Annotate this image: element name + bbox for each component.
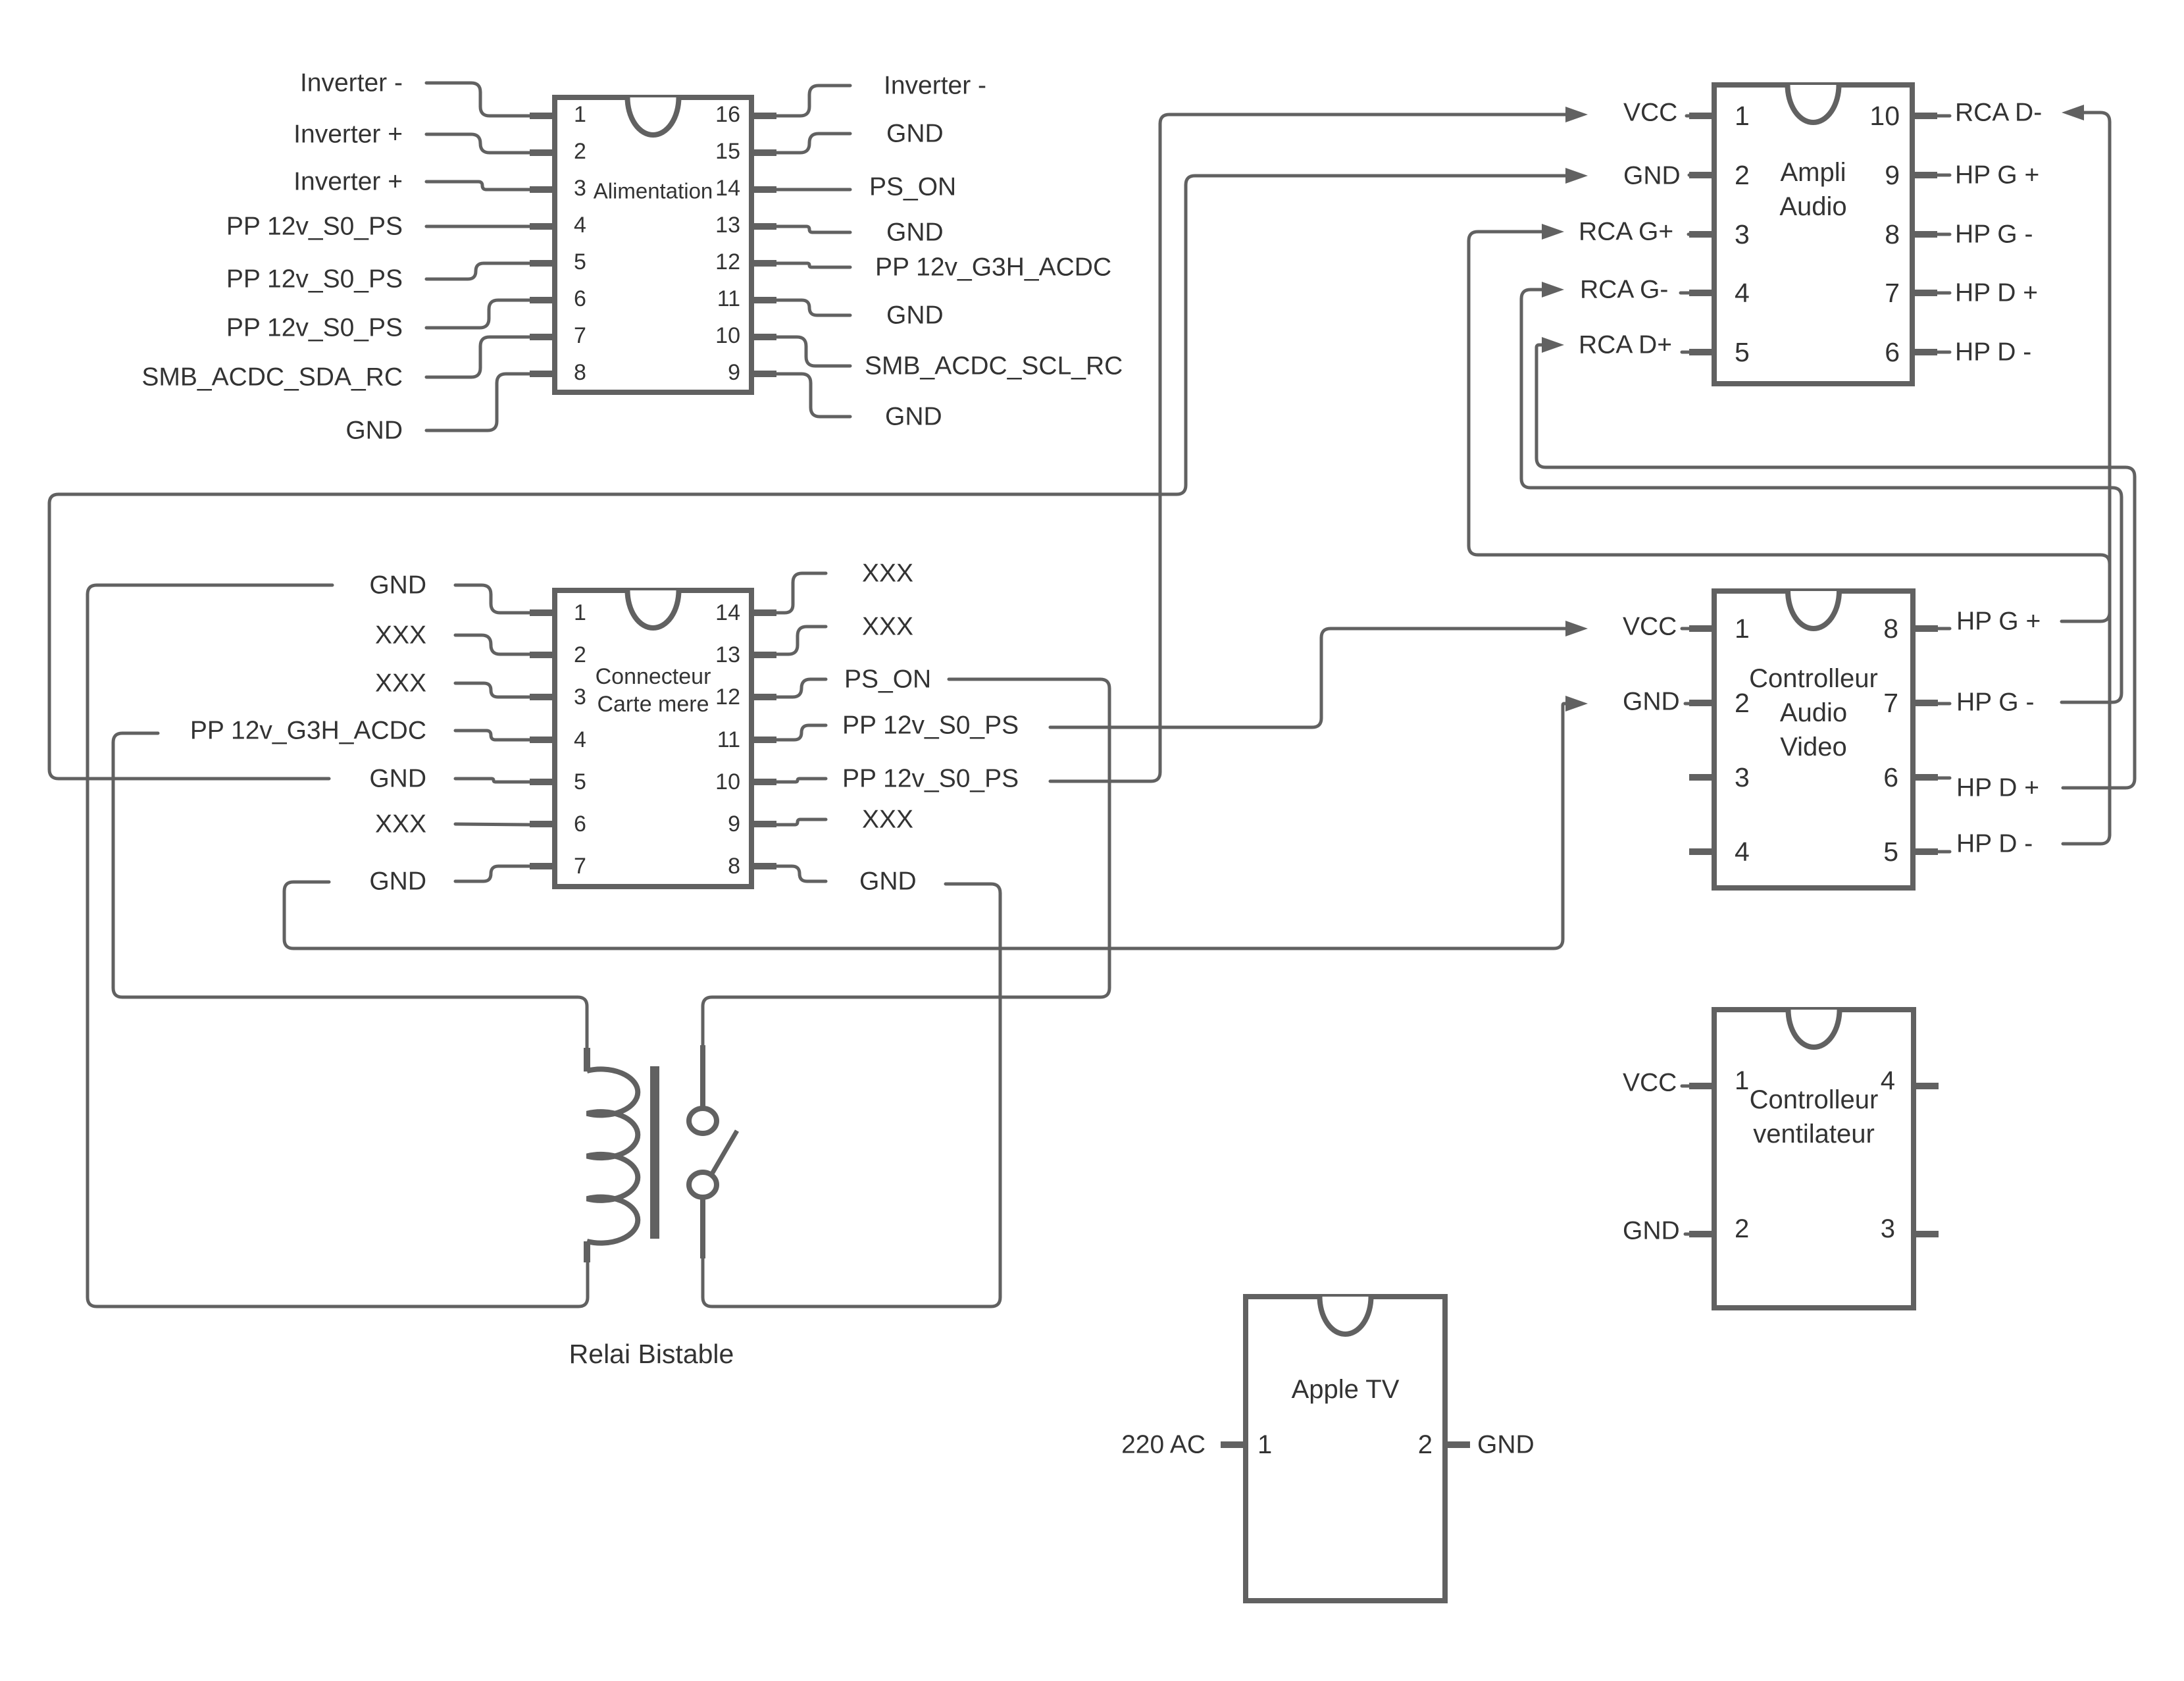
wire pin -> XXX bbox=[776, 819, 826, 825]
svg-text:2: 2 bbox=[1735, 688, 1750, 718]
svg-text:4: 4 bbox=[1735, 837, 1750, 867]
svg-text:4: 4 bbox=[574, 727, 586, 752]
svg-text:6: 6 bbox=[1883, 762, 1898, 792]
svg-text:4: 4 bbox=[574, 213, 586, 238]
IC Controlleur ventilateur U4: pin 2 stub bbox=[1689, 1231, 1714, 1237]
svg-text:HP G +: HP G + bbox=[1955, 161, 2039, 190]
svg-text:Controlleur: Controlleur bbox=[1750, 1085, 1879, 1114]
svg-text:7: 7 bbox=[574, 323, 586, 348]
svg-text:HP G -: HP G - bbox=[1955, 220, 2033, 249]
svg-text:VCC: VCC bbox=[1623, 1069, 1677, 1097]
svg-text:3: 3 bbox=[1735, 219, 1750, 249]
wire pin -> HP D - label bbox=[1937, 351, 1950, 354]
wire Inverter + -> pin bbox=[426, 182, 530, 190]
IC Alimentation U1: pin 10 stub bbox=[751, 334, 776, 340]
svg-text:1: 1 bbox=[1735, 1066, 1749, 1095]
svg-text:10: 10 bbox=[1869, 101, 1900, 131]
svg-text:GND: GND bbox=[369, 765, 426, 793]
wire pin -> GND bbox=[776, 374, 850, 417]
svg-text:7: 7 bbox=[1883, 688, 1898, 718]
wire XXX -> pin bbox=[455, 635, 530, 654]
svg-text:GND: GND bbox=[886, 301, 944, 330]
wire pin -> XXX bbox=[776, 627, 826, 654]
IC Alimentation U1: pin 3 stub bbox=[530, 186, 555, 193]
svg-text:GND: GND bbox=[1623, 688, 1680, 716]
wire net GND: Connecteur pin5 GND -> Ampli GND bbox=[49, 176, 1565, 779]
svg-text:RCA G+: RCA G+ bbox=[1579, 218, 1673, 246]
IC Connecteur Carte mere J1: pin 2 stub bbox=[530, 652, 555, 658]
relay K1 switch contact circle bottom bbox=[689, 1172, 717, 1197]
wire pin -> GND bbox=[776, 226, 850, 232]
IC Ampli Audio U2: pin 10 stub bbox=[1912, 113, 1937, 119]
wire pin -> HP G - label bbox=[1938, 702, 1950, 706]
arrowhead into Ampli VCC bbox=[1565, 107, 1588, 122]
IC Alimentation U1: pin 9 stub bbox=[751, 371, 776, 377]
svg-text:HP D +: HP D + bbox=[1955, 279, 2038, 307]
IC Alimentation U1: pin 7 stub bbox=[530, 334, 555, 340]
IC Controlleur ventilateur U4: pin 3 stub bbox=[1914, 1231, 1939, 1237]
svg-text:Inverter +: Inverter + bbox=[293, 120, 403, 149]
IC Controlleur ventilateur U4: notch bbox=[1789, 1010, 1840, 1047]
svg-text:GND: GND bbox=[1623, 1217, 1680, 1245]
relay K1 coil windings bbox=[587, 1069, 638, 1243]
IC Alimentation U1: pin 1 stub bbox=[530, 113, 555, 119]
IC Apple TV: pin 2 stub bbox=[1445, 1441, 1470, 1448]
svg-text:Alimentation: Alimentation bbox=[594, 179, 713, 203]
svg-text:10: 10 bbox=[715, 769, 740, 794]
svg-text:2: 2 bbox=[574, 642, 586, 667]
IC Alimentation U1: pin 11 stub bbox=[751, 297, 776, 303]
arrowhead into Ctrl AV VCC bbox=[1565, 621, 1588, 636]
svg-text:PP 12v_S0_PS: PP 12v_S0_PS bbox=[226, 213, 403, 241]
wire pin -> PP 12v_S0_PS bbox=[776, 725, 826, 740]
wire PP 12v_S0_PS -> pin bbox=[426, 263, 530, 279]
IC Connecteur Carte mere J1: pin 14 stub bbox=[751, 609, 776, 616]
svg-text:12: 12 bbox=[715, 249, 740, 274]
svg-text:5: 5 bbox=[1735, 337, 1750, 367]
svg-text:XXX: XXX bbox=[862, 806, 913, 834]
svg-text:16: 16 bbox=[715, 102, 740, 127]
wire pin -> GND bbox=[776, 134, 850, 153]
svg-text:HP D -: HP D - bbox=[1956, 830, 2033, 858]
svg-text:2: 2 bbox=[1735, 1214, 1749, 1243]
IC Controlleur ventilateur U4: pin 4 stub bbox=[1914, 1083, 1939, 1089]
svg-text:XXX: XXX bbox=[375, 810, 426, 839]
svg-text:Connecteur: Connecteur bbox=[596, 664, 711, 689]
svg-text:XXX: XXX bbox=[862, 559, 913, 588]
IC Connecteur Carte mere J1: pin 13 stub bbox=[751, 652, 776, 658]
IC Ampli Audio U2: body bbox=[1714, 85, 1912, 384]
IC Controlleur Audio Video U3: body bbox=[1714, 591, 1913, 888]
svg-text:1: 1 bbox=[574, 102, 586, 127]
IC Connecteur Carte mere J1: pin 12 stub bbox=[751, 694, 776, 700]
svg-text:Inverter +: Inverter + bbox=[293, 168, 403, 196]
svg-text:3: 3 bbox=[1881, 1214, 1895, 1243]
svg-text:GND: GND bbox=[369, 867, 426, 896]
svg-text:8: 8 bbox=[574, 360, 586, 385]
wire Inverter + -> pin bbox=[426, 134, 530, 153]
wire RCA G- label -> pin bbox=[1681, 292, 1689, 295]
svg-text:9: 9 bbox=[728, 812, 740, 837]
svg-text:HP D -: HP D - bbox=[1955, 338, 2031, 367]
svg-text:5: 5 bbox=[574, 249, 586, 274]
svg-text:PP 12v_S0_PS: PP 12v_S0_PS bbox=[842, 711, 1019, 740]
wire net HP G+: Ctrl AV HP G+ -> Ampli RCA G+ bbox=[1469, 232, 2110, 621]
IC Alimentation U1: pin 14 stub bbox=[751, 186, 776, 193]
IC Connecteur Carte mere J1: pin 4 stub bbox=[530, 737, 555, 743]
wire VCC label -> pin bbox=[1687, 115, 1689, 118]
wire PP 12v_S0_PS -> pin bbox=[426, 300, 530, 328]
svg-text:GND: GND bbox=[1477, 1431, 1535, 1459]
wire RCA D+ label -> pin bbox=[1682, 351, 1689, 354]
IC Apple TV: pin 1 stub bbox=[1221, 1441, 1246, 1448]
IC Alimentation U1: pin 4 stub bbox=[530, 223, 555, 230]
wire GND label -> pin bbox=[1689, 174, 1690, 177]
IC Ampli Audio U2: pin 4 stub bbox=[1689, 290, 1714, 296]
wire pin -> PS_ON bbox=[776, 679, 826, 697]
svg-text:Apple TV: Apple TV bbox=[1292, 1375, 1400, 1404]
svg-text:PS_ON: PS_ON bbox=[869, 173, 956, 201]
svg-text:6: 6 bbox=[574, 286, 586, 311]
IC Alimentation U1: pin 13 stub bbox=[751, 223, 776, 230]
arrowhead into Ampli RCA D+ bbox=[1542, 337, 1564, 353]
svg-text:GND: GND bbox=[369, 571, 426, 600]
svg-text:SMB_ACDC_SCL_RC: SMB_ACDC_SCL_RC bbox=[865, 352, 1123, 380]
svg-text:PP 12v_G3H_ACDC: PP 12v_G3H_ACDC bbox=[190, 717, 426, 745]
svg-text:11: 11 bbox=[717, 727, 740, 752]
IC Connecteur Carte mere J1: body bbox=[555, 590, 751, 887]
wire pin -> GND bbox=[776, 300, 850, 315]
IC Ampli Audio U2: pin 2 stub bbox=[1689, 172, 1714, 178]
IC Connecteur Carte mere J1: pin 3 stub bbox=[530, 694, 555, 700]
wire net PP12v_S0_PS: Connecteur pin10 -> Ampli VCC bbox=[1050, 115, 1565, 781]
IC Controlleur ventilateur U4: pin 1 stub bbox=[1689, 1083, 1714, 1089]
svg-text:2: 2 bbox=[1418, 1430, 1433, 1459]
wire pin -> PP 12v_G3H_ACDC bbox=[776, 263, 850, 267]
IC Connecteur Carte mere J1: pin 1 stub bbox=[530, 609, 555, 616]
wire net GND: Connecteur pin8 GND -> relay switch bottom bbox=[703, 884, 1000, 1306]
IC Apple TV: body bbox=[1246, 1297, 1445, 1601]
svg-text:2: 2 bbox=[1735, 160, 1750, 190]
relay K1 switch terminal stub bottom bbox=[700, 1197, 705, 1258]
wire Inverter - -> pin bbox=[426, 83, 530, 116]
wire VCC label -> pin 1 bbox=[1682, 1085, 1689, 1088]
svg-text:XXX: XXX bbox=[375, 669, 426, 698]
IC Alimentation U1: pin 16 stub bbox=[751, 113, 776, 119]
IC Alimentation U1: pin 5 stub bbox=[530, 260, 555, 267]
relay K1 switch contact circle top bbox=[689, 1108, 717, 1133]
svg-text:9: 9 bbox=[728, 360, 740, 385]
wire net PP12v_G3H_ACDC: Connecteur pin4 -> relay coil top bbox=[113, 733, 587, 1049]
IC Controlleur Audio Video U3: pin 3 stub bbox=[1689, 774, 1714, 781]
wire GND label -> pin 2 bbox=[1685, 1233, 1689, 1236]
svg-text:5: 5 bbox=[1883, 837, 1898, 867]
wire net GND: Connecteur pin7 GND -> Ctrl AV GND bbox=[284, 704, 1565, 948]
svg-text:GND: GND bbox=[886, 120, 944, 148]
wire GND -> pin bbox=[455, 585, 530, 613]
wire PP 12v_S0_PS -> pin bbox=[426, 225, 530, 228]
IC Connecteur Carte mere J1: pin 8 stub bbox=[751, 863, 776, 869]
IC Ampli Audio U2: pin 3 stub bbox=[1689, 231, 1714, 238]
wire pin -> HP D + label bbox=[1938, 777, 1950, 780]
svg-text:2: 2 bbox=[574, 139, 586, 164]
svg-text:3: 3 bbox=[574, 176, 586, 201]
svg-text:Audio: Audio bbox=[1779, 192, 1846, 221]
svg-text:14: 14 bbox=[715, 176, 740, 201]
IC Controlleur Audio Video U3: pin 5 stub bbox=[1913, 848, 1938, 855]
wire pin -> HP G + label bbox=[1938, 627, 1950, 631]
svg-text:GND: GND bbox=[1623, 162, 1681, 190]
svg-text:GND: GND bbox=[886, 219, 944, 247]
svg-text:8: 8 bbox=[1883, 613, 1898, 644]
IC Ampli Audio U2: pin 7 stub bbox=[1912, 290, 1937, 296]
IC Controlleur Audio Video U3: notch bbox=[1788, 591, 1839, 629]
svg-text:8: 8 bbox=[728, 854, 740, 879]
svg-text:6: 6 bbox=[1885, 337, 1900, 367]
wire pin -> PS_ON bbox=[776, 188, 850, 192]
wire GND -> pin bbox=[455, 866, 530, 881]
svg-text:VCC: VCC bbox=[1623, 613, 1677, 641]
svg-text:11: 11 bbox=[717, 286, 740, 311]
IC Alimentation U1: notch bbox=[628, 97, 679, 135]
svg-text:10: 10 bbox=[715, 323, 740, 348]
arrowhead into Ampli RCA G+ bbox=[1542, 224, 1564, 240]
svg-text:13: 13 bbox=[715, 642, 740, 667]
svg-text:15: 15 bbox=[715, 139, 740, 164]
wire net PS_ON: Connecteur pin12 -> relay switch top bbox=[703, 679, 1109, 1047]
IC Ampli Audio U2: pin 5 stub bbox=[1689, 349, 1714, 355]
arrowhead into Ampli RCA G- bbox=[1542, 282, 1564, 297]
IC Connecteur Carte mere J1: pin 11 stub bbox=[751, 737, 776, 743]
wire RCA G+ label -> pin bbox=[1689, 233, 1689, 236]
svg-text:Video: Video bbox=[1780, 733, 1847, 762]
IC Controlleur Audio Video U3: pin 2 stub bbox=[1689, 700, 1714, 706]
wire pin -> HP G + label bbox=[1937, 174, 1950, 177]
svg-text:1: 1 bbox=[1735, 101, 1750, 131]
svg-text:1: 1 bbox=[1735, 613, 1750, 644]
IC Ampli Audio U2: pin 9 stub bbox=[1912, 172, 1937, 178]
wire pin -> HP D + label bbox=[1937, 292, 1950, 295]
IC Apple TV: notch bbox=[1320, 1297, 1371, 1334]
wire XXX -> pin bbox=[455, 683, 530, 697]
wire net HP G-: Ctrl AV HP G- -> Ampli RCA G- bbox=[1521, 290, 2121, 702]
wire PP 12v_G3H_ACDC -> pin bbox=[455, 731, 530, 740]
wire GND -> pin bbox=[455, 779, 530, 782]
svg-text:RCA D-: RCA D- bbox=[1955, 99, 2042, 127]
IC Ampli Audio U2: pin 6 stub bbox=[1912, 349, 1937, 355]
arrowhead into Ampli RCA D- bbox=[2062, 105, 2084, 120]
svg-text:GND: GND bbox=[345, 417, 403, 445]
svg-text:7: 7 bbox=[574, 854, 586, 879]
wire pin -> SMB_ACDC_SCL_RC bbox=[776, 337, 850, 366]
svg-text:RCA D+: RCA D+ bbox=[1579, 331, 1672, 359]
svg-text:Relai Bistable: Relai Bistable bbox=[569, 1339, 734, 1369]
svg-text:3: 3 bbox=[574, 685, 586, 710]
wire pin -> HP G - label bbox=[1937, 233, 1950, 236]
wire net HP D+: Ctrl AV HP D+ -> Ampli RCA D+ bbox=[1536, 345, 2135, 788]
IC Connecteur Carte mere J1: pin 5 stub bbox=[530, 779, 555, 785]
IC Connecteur Carte mere J1: pin 10 stub bbox=[751, 779, 776, 785]
svg-text:Audio: Audio bbox=[1780, 698, 1847, 727]
svg-text:HP D +: HP D + bbox=[1956, 774, 2039, 802]
IC Connecteur Carte mere J1: notch bbox=[628, 590, 679, 628]
svg-text:Ampli: Ampli bbox=[1780, 158, 1846, 187]
wire net PP12v_S0_PS: Connecteur pin11 -> Ctrl AV VCC bbox=[1050, 629, 1565, 727]
svg-text:Controlleur: Controlleur bbox=[1749, 664, 1878, 693]
svg-text:1: 1 bbox=[1257, 1430, 1272, 1459]
IC Alimentation U1: pin 6 stub bbox=[530, 297, 555, 303]
IC Ampli Audio U2: notch bbox=[1788, 85, 1839, 122]
svg-text:6: 6 bbox=[574, 812, 586, 837]
svg-text:220 AC: 220 AC bbox=[1121, 1431, 1206, 1459]
svg-text:14: 14 bbox=[715, 600, 740, 625]
svg-text:HP G +: HP G + bbox=[1956, 608, 2041, 636]
wire pin -> HP D - label bbox=[1938, 850, 1950, 854]
svg-text:GND: GND bbox=[885, 403, 942, 431]
svg-text:3: 3 bbox=[1735, 762, 1750, 792]
svg-text:Inverter -: Inverter - bbox=[300, 69, 403, 97]
arrowhead into Ampli GND bbox=[1565, 168, 1588, 184]
IC Connecteur Carte mere J1: pin 7 stub bbox=[530, 863, 555, 869]
svg-text:13: 13 bbox=[715, 213, 740, 238]
svg-text:HP G -: HP G - bbox=[1956, 688, 2034, 717]
wire pin -> XXX bbox=[776, 573, 826, 613]
svg-text:4: 4 bbox=[1735, 278, 1750, 308]
IC Controlleur Audio Video U3: pin 7 stub bbox=[1913, 700, 1938, 706]
svg-text:9: 9 bbox=[1885, 160, 1900, 190]
IC Connecteur Carte mere J1: pin 6 stub bbox=[530, 821, 555, 827]
svg-text:PS_ON: PS_ON bbox=[844, 665, 931, 694]
relay K1 coil terminal stub top bbox=[584, 1048, 590, 1072]
svg-text:PP 12v_S0_PS: PP 12v_S0_PS bbox=[226, 314, 403, 342]
svg-text:12: 12 bbox=[715, 685, 740, 710]
svg-text:1: 1 bbox=[574, 600, 586, 625]
IC Connecteur Carte mere J1: pin 9 stub bbox=[751, 821, 776, 827]
svg-text:5: 5 bbox=[574, 769, 586, 794]
wire net HP D-: Ctrl AV HP D- -> Ampli RCA D- bbox=[2063, 113, 2110, 844]
wire GND label -> pin 2 bbox=[1685, 702, 1689, 706]
IC Alimentation U1: body bbox=[555, 97, 751, 392]
wire net GND: Connecteur pin1 GND -> relay coil bottom bbox=[88, 585, 588, 1306]
IC Controlleur Audio Video U3: pin 1 stub bbox=[1689, 625, 1714, 632]
svg-text:Inverter -: Inverter - bbox=[884, 72, 986, 100]
IC Ampli Audio U2: pin 8 stub bbox=[1912, 231, 1937, 238]
IC Alimentation U1: pin 2 stub bbox=[530, 149, 555, 156]
relay K1 switch terminal stub top bbox=[700, 1045, 705, 1108]
wire pin -> RCA D- label bbox=[1937, 115, 1950, 118]
svg-text:VCC: VCC bbox=[1623, 99, 1677, 127]
svg-text:7: 7 bbox=[1885, 278, 1900, 308]
IC Ampli Audio U2: pin 1 stub bbox=[1689, 113, 1714, 119]
svg-text:PP 12v_S0_PS: PP 12v_S0_PS bbox=[226, 265, 403, 294]
svg-text:Carte mere: Carte mere bbox=[597, 692, 709, 717]
IC Alimentation U1: pin 15 stub bbox=[751, 149, 776, 156]
svg-text:SMB_ACDC_SDA_RC: SMB_ACDC_SDA_RC bbox=[141, 363, 403, 392]
svg-text:PP 12v_S0_PS: PP 12v_S0_PS bbox=[842, 765, 1019, 793]
svg-text:RCA G-: RCA G- bbox=[1580, 276, 1668, 304]
svg-text:4: 4 bbox=[1881, 1066, 1895, 1095]
IC Controlleur Audio Video U3: pin 8 stub bbox=[1913, 625, 1938, 632]
IC Controlleur Audio Video U3: pin 6 stub bbox=[1913, 774, 1938, 781]
relay K1 core bar bbox=[650, 1066, 659, 1239]
svg-text:XXX: XXX bbox=[375, 621, 426, 650]
IC Controlleur ventilateur U4: body bbox=[1714, 1010, 1914, 1308]
IC Alimentation U1: pin 8 stub bbox=[530, 371, 555, 377]
wire pin -> Inverter - bbox=[776, 86, 850, 116]
wire VCC label -> pin 1 bbox=[1682, 627, 1689, 631]
svg-text:8: 8 bbox=[1885, 219, 1900, 249]
wire pin -> PP 12v_S0_PS bbox=[776, 779, 826, 782]
svg-text:XXX: XXX bbox=[862, 613, 913, 641]
wire GND -> pin bbox=[426, 374, 530, 430]
relay K1 coil terminal stub bottom bbox=[584, 1241, 590, 1262]
arrowhead into Ctrl AV GND bbox=[1565, 696, 1588, 711]
svg-text:PP 12v_G3H_ACDC: PP 12v_G3H_ACDC bbox=[875, 253, 1111, 282]
IC Controlleur Audio Video U3: pin 4 stub bbox=[1689, 848, 1714, 855]
svg-text:GND: GND bbox=[859, 867, 917, 896]
wire pin -> GND bbox=[776, 866, 826, 881]
IC Alimentation U1: pin 12 stub bbox=[751, 260, 776, 267]
svg-text:ventilateur: ventilateur bbox=[1753, 1120, 1875, 1149]
relay K1 switch blade bbox=[711, 1131, 737, 1175]
wire SMB_ACDC_SDA_RC -> pin bbox=[426, 337, 530, 377]
wire XXX -> pin bbox=[455, 824, 530, 825]
